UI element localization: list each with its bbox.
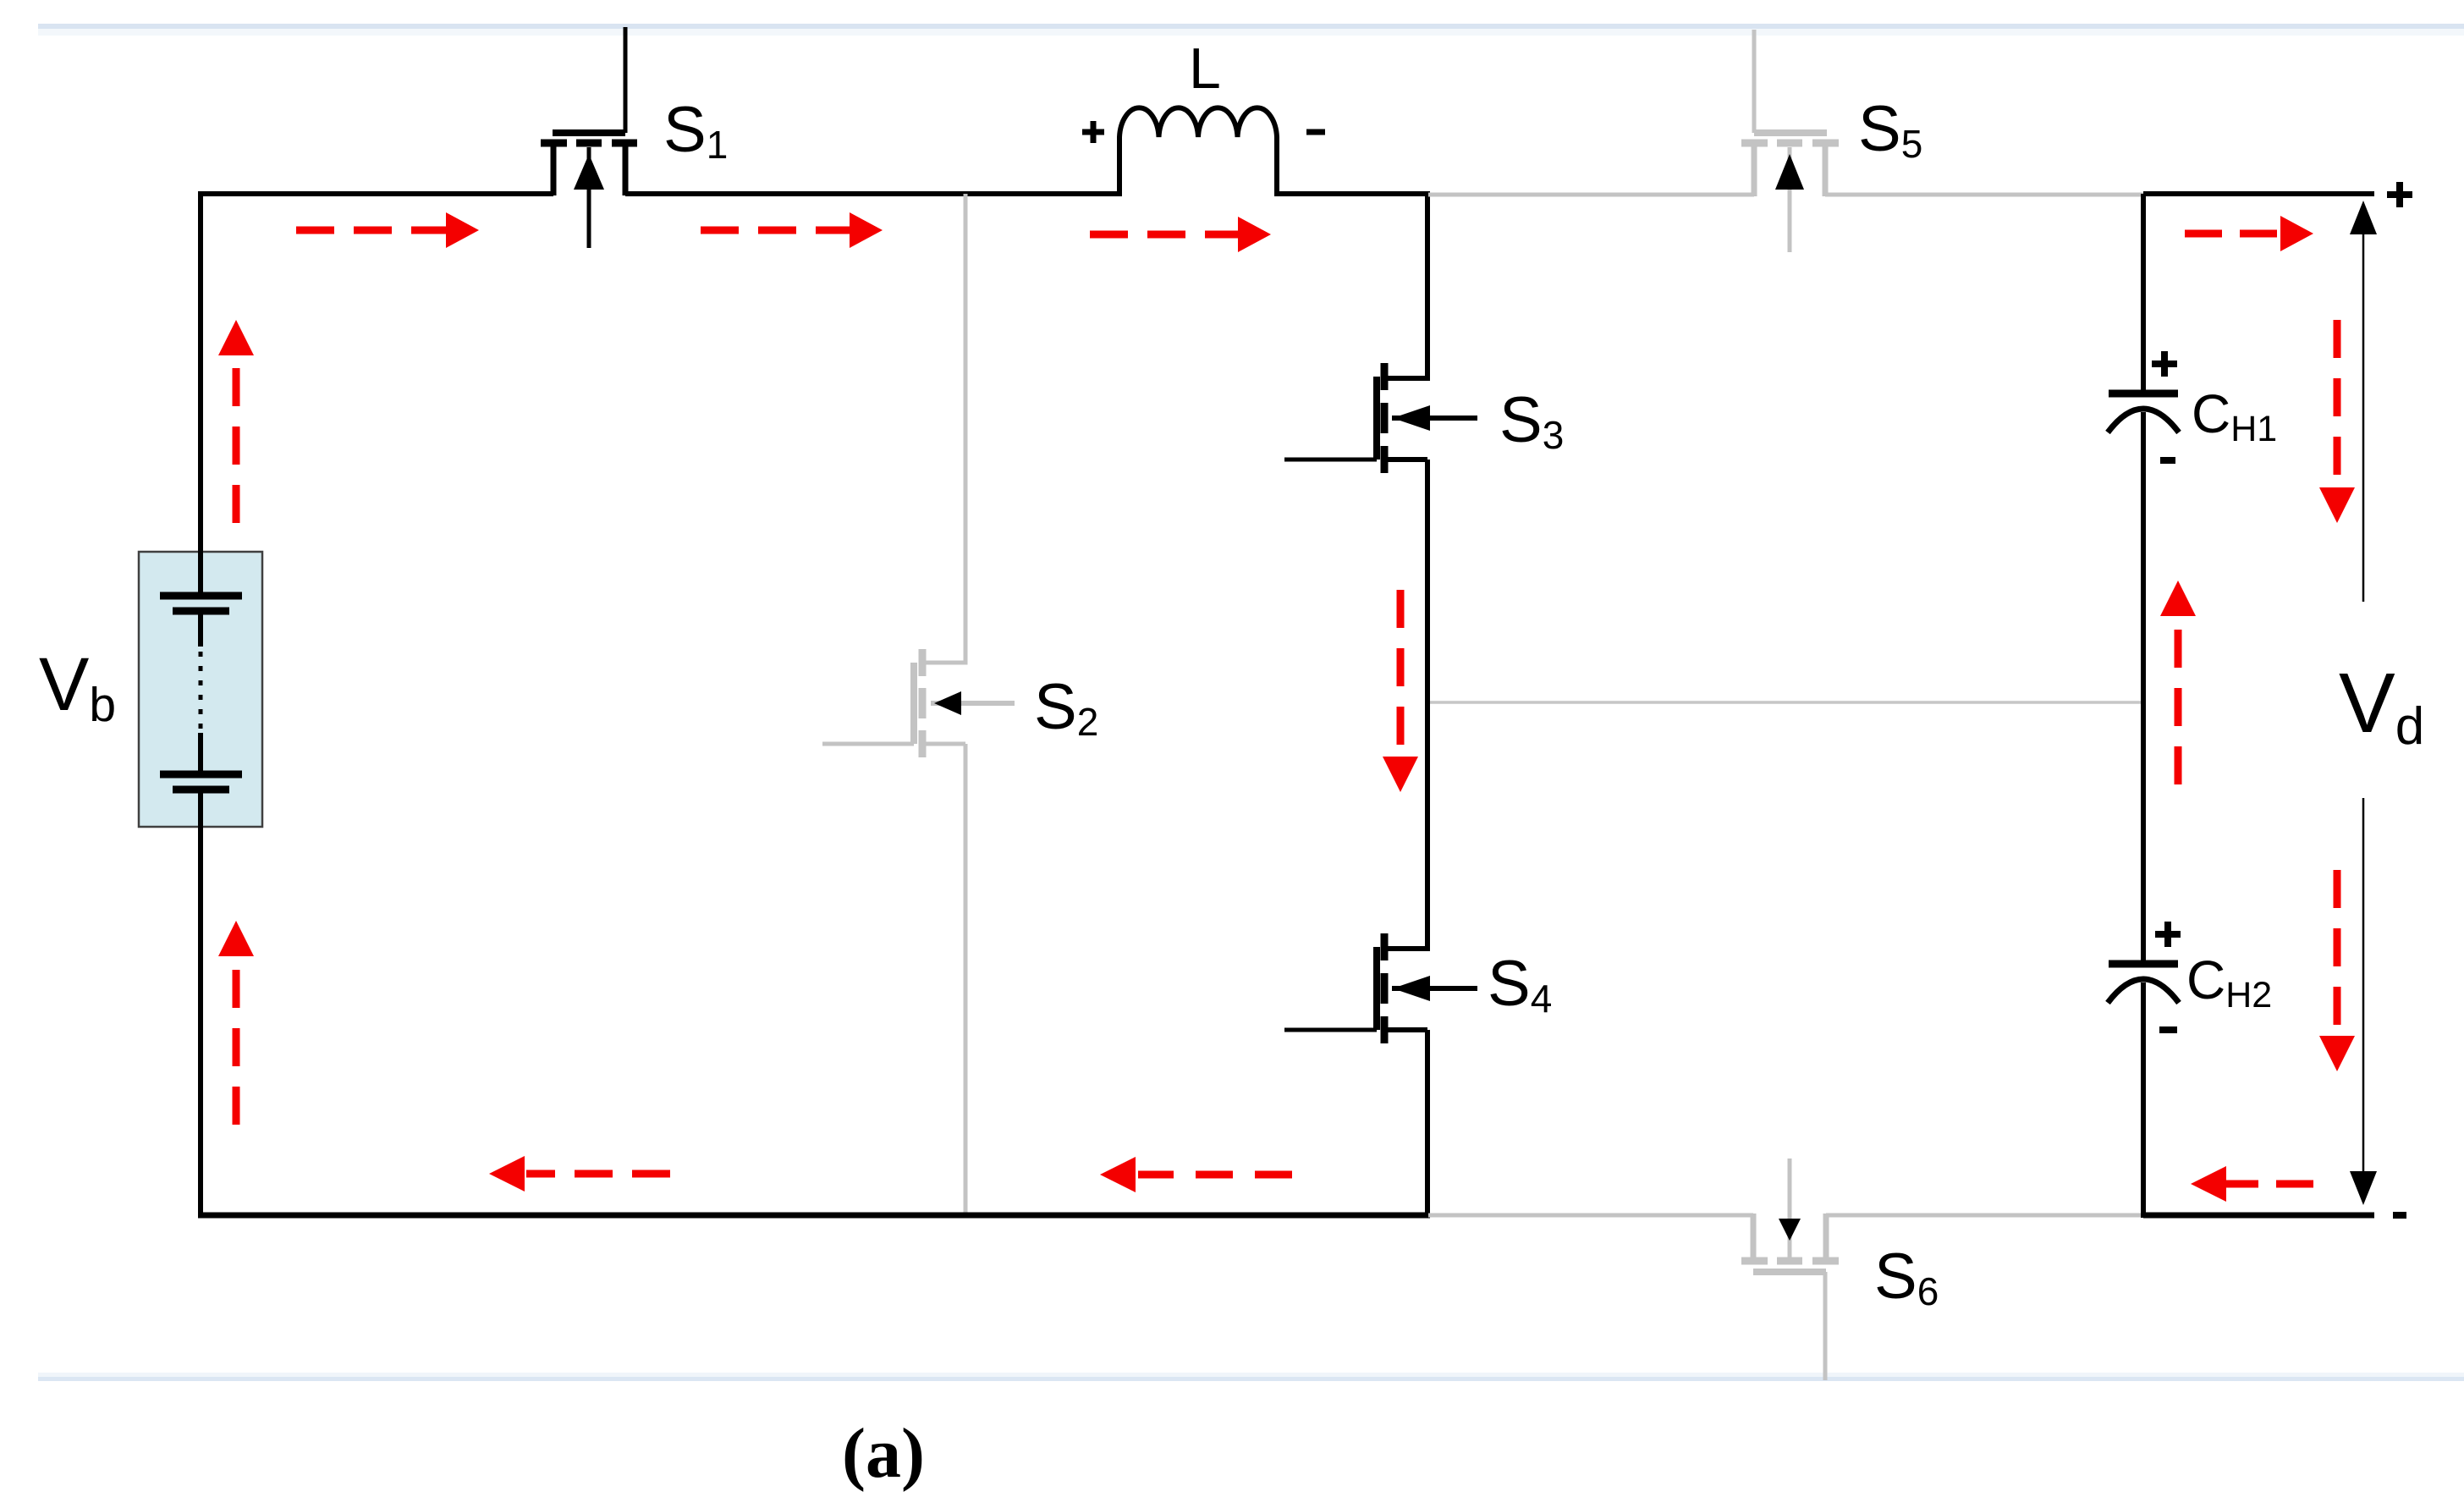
wire S3 source to S4 drain — [1387, 460, 1427, 949]
wire gray bottom rail to S6 — [1428, 1214, 1753, 1218]
wire top rail L to S3 branch — [1274, 191, 1430, 196]
current arrow left rail up top — [218, 320, 254, 523]
current arrow bottom mid left — [489, 1156, 670, 1192]
svg-text:(a): (a) — [842, 1414, 925, 1493]
wire battery internal — [198, 611, 203, 647]
battery cell plates bottom — [160, 771, 242, 779]
Vd dimension arrow top — [2350, 201, 2377, 602]
current arrow right side down lower — [2319, 870, 2355, 1071]
wire battery internal lower — [198, 733, 203, 774]
inductor L — [1119, 107, 1277, 195]
svg-text:L: L — [1189, 36, 1221, 101]
transistor S6 — [1741, 1159, 1839, 1380]
current arrow top right toward CH1 — [2185, 216, 2313, 251]
current arrow bottom right left — [2191, 1166, 2313, 1202]
wire left rail top (battery + to top rail) — [198, 194, 203, 596]
current arrow after L right — [1090, 217, 1271, 252]
wire gray top rail S5 to CH1 — [1825, 193, 2143, 197]
wire S3 drain branch — [1387, 191, 1427, 378]
current arrow bottom S4 left — [1100, 1157, 1292, 1192]
battery cell plates top — [160, 592, 242, 600]
minus sign CH2 — [2159, 1026, 2177, 1033]
Vd dimension arrow bottom — [2350, 798, 2377, 1205]
current arrow left rail up bottom — [218, 921, 254, 1125]
transistor S2 — [822, 649, 1015, 757]
battery dotted internal link — [199, 652, 203, 729]
plus sign output — [2387, 182, 2412, 207]
wire bottom rail battery to S4 — [198, 1213, 1430, 1219]
current arrow right side down upper — [2319, 320, 2355, 523]
transistor S5 — [1741, 30, 1839, 252]
battery Vb box — [139, 552, 262, 827]
capacitor CH2 — [2108, 964, 2179, 1003]
current arrow after S1 right — [701, 212, 883, 248]
transistor S3 — [1284, 363, 1477, 473]
wire top rail CH1 to output plus — [2143, 191, 2374, 196]
current arrow S3S4 branch down — [1383, 590, 1418, 792]
wire right rail CH2 to bottom rail — [2141, 982, 2146, 1218]
plus sign L — [1082, 121, 1104, 143]
wire middle node S3S4 to caps — [1430, 701, 2143, 704]
current arrow top left right — [296, 212, 479, 248]
minus sign output — [2393, 1212, 2406, 1219]
wire top rail S1 to L — [625, 191, 1122, 196]
plus sign CH1 — [2152, 351, 2177, 377]
wire left rail bottom — [198, 790, 203, 1218]
wire gray top rail to S5 — [1428, 193, 1754, 197]
wire top rail battery to S1 — [198, 191, 553, 196]
wire bottom rail CH2 to output minus — [2143, 1213, 2374, 1219]
transistor S1 — [541, 27, 637, 248]
minus sign CH1 — [2160, 457, 2175, 464]
wire S2 source to bottom rail — [922, 744, 965, 1215]
current arrow below CH1 up — [2160, 581, 2196, 784]
plus sign CH2 — [2155, 922, 2181, 947]
wire gray bottom rail S6 to CH2 — [1826, 1214, 2143, 1218]
transistor S4 — [1284, 933, 1477, 1043]
wire S2 drain from top rail — [924, 194, 965, 663]
capacitor CH1 — [2108, 394, 2179, 432]
wire right rail top to CH1 — [2141, 194, 2146, 390]
wire S4 source to bottom rail — [1387, 1030, 1427, 1215]
minus sign L — [1306, 129, 1325, 135]
wire right rail CH1 to CH2 — [2141, 412, 2146, 960]
